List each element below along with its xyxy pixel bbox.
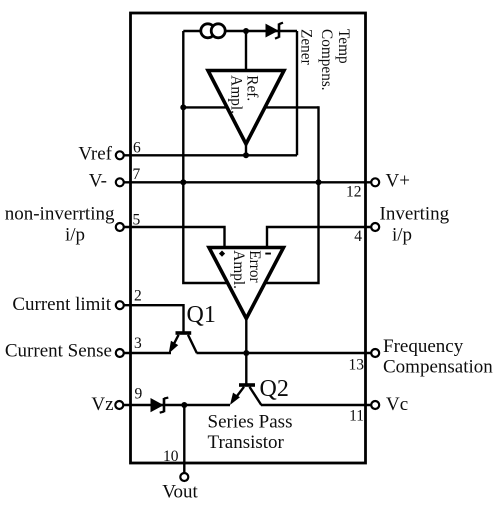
wire: ref ampl output to pin 6 line	[245, 140, 247, 155]
pin 2 terminal	[116, 301, 124, 309]
svg-text:Current limit: Current limit	[12, 294, 111, 315]
wire: error ampl output down to pin3/13 line	[245, 315, 247, 353]
wire: pin 3 current sense to Q1 emitter	[124, 352, 172, 354]
outer IC boundary box	[131, 13, 366, 463]
temp compensated zener diode D1 (top)	[266, 25, 278, 37]
svg-text:4: 4	[354, 228, 362, 245]
wire: zener output line behind ref ampl	[183, 106, 318, 108]
junction node V- rail left	[180, 179, 186, 185]
error ampl - input mark	[265, 253, 271, 255]
pin 7 terminal	[116, 178, 124, 186]
svg-text:V+: V+	[386, 171, 410, 192]
pin 11 terminal	[371, 401, 379, 409]
junction node zener line left	[180, 104, 186, 110]
wire: Q1 collector to pin 13 frequency compensation	[197, 352, 372, 354]
wire: left vertical rail x=183 down to error amp supply	[183, 31, 232, 283]
pin 5 terminal	[116, 223, 124, 231]
svg-text:5: 5	[133, 211, 141, 228]
pin 12 terminal	[371, 178, 379, 186]
junction node top	[243, 28, 249, 34]
pin 4 terminal	[371, 223, 379, 231]
svg-text:11: 11	[349, 408, 364, 425]
pin 3 terminal	[116, 349, 124, 357]
svg-text:i/p: i/p	[65, 225, 85, 246]
svg-text:Vc: Vc	[386, 394, 408, 415]
junction node Vz	[181, 402, 187, 408]
svg-text:6: 6	[133, 139, 141, 156]
transistor Q2	[232, 385, 262, 405]
wire: pin 5 non-inverting input line	[124, 227, 225, 249]
svg-text:Inverting: Inverting	[380, 203, 450, 224]
wire: pin 9 Vz line to Q2 emitter	[124, 404, 231, 406]
wire: pin 4 inverting input line	[267, 227, 372, 249]
svg-text:Vref: Vref	[78, 144, 112, 165]
svg-text:Current Sense: Current Sense	[5, 341, 112, 362]
junction node error output	[243, 350, 249, 356]
svg-text:2: 2	[134, 288, 142, 305]
svg-text:V-: V-	[89, 171, 107, 192]
pin 13 terminal	[371, 349, 379, 357]
svg-text:3: 3	[134, 335, 142, 352]
svg-text:Frequency: Frequency	[383, 336, 464, 357]
svg-text:9: 9	[135, 385, 143, 402]
transistor Q1	[170, 333, 197, 353]
pin 9 terminal	[115, 401, 123, 409]
wire: pin 6 Vref line / bottom of reference section	[124, 154, 298, 156]
pin 10 terminal	[180, 473, 188, 481]
svg-text:Transistor: Transistor	[208, 432, 285, 453]
svg-text:non-inverrting: non-inverrting	[5, 203, 115, 224]
svg-text:Vout: Vout	[162, 482, 198, 503]
op-amp Ref. Ampl.	[208, 71, 284, 145]
wire: Q2 collector to pin 11 Vc	[261, 404, 372, 406]
wire: node to Q2 base	[245, 353, 247, 384]
svg-text:10: 10	[163, 448, 179, 465]
wire: pin 7 V- to pin 12 V+ line	[124, 181, 372, 183]
svg-text:Series Pass: Series Pass	[208, 412, 293, 433]
zener diode D2 (Vz, pin 9)	[151, 399, 163, 412]
pin 6 terminal	[116, 151, 124, 159]
wire: reference section top rail	[183, 30, 297, 32]
wire: Vz node down to pin 10 Vout	[183, 405, 185, 473]
svg-text:i/p: i/p	[392, 225, 412, 246]
wire: pin 2 current limit to Q1 base	[124, 305, 184, 332]
svg-text:Q1: Q1	[187, 302, 216, 328]
junction node V+ rail right	[316, 179, 322, 185]
current source CS1 (two overlapping circles)	[201, 24, 215, 38]
error ampl + input mark	[219, 250, 225, 256]
svg-text:Compensation: Compensation	[383, 357, 493, 378]
svg-text:13: 13	[349, 357, 365, 374]
svg-text:12: 12	[346, 183, 362, 200]
svg-text:Q2: Q2	[260, 376, 289, 402]
wire: top node to ref ampl input	[245, 31, 247, 72]
wire: reference section right edge	[296, 31, 298, 155]
wire: right vertical rail x=318.5 down to error amp supply	[260, 106, 319, 283]
svg-text:7: 7	[133, 166, 141, 183]
junction node ref output	[243, 152, 249, 158]
svg-text:Vz: Vz	[91, 394, 113, 415]
op-amp Error Ampl.	[209, 248, 284, 319]
